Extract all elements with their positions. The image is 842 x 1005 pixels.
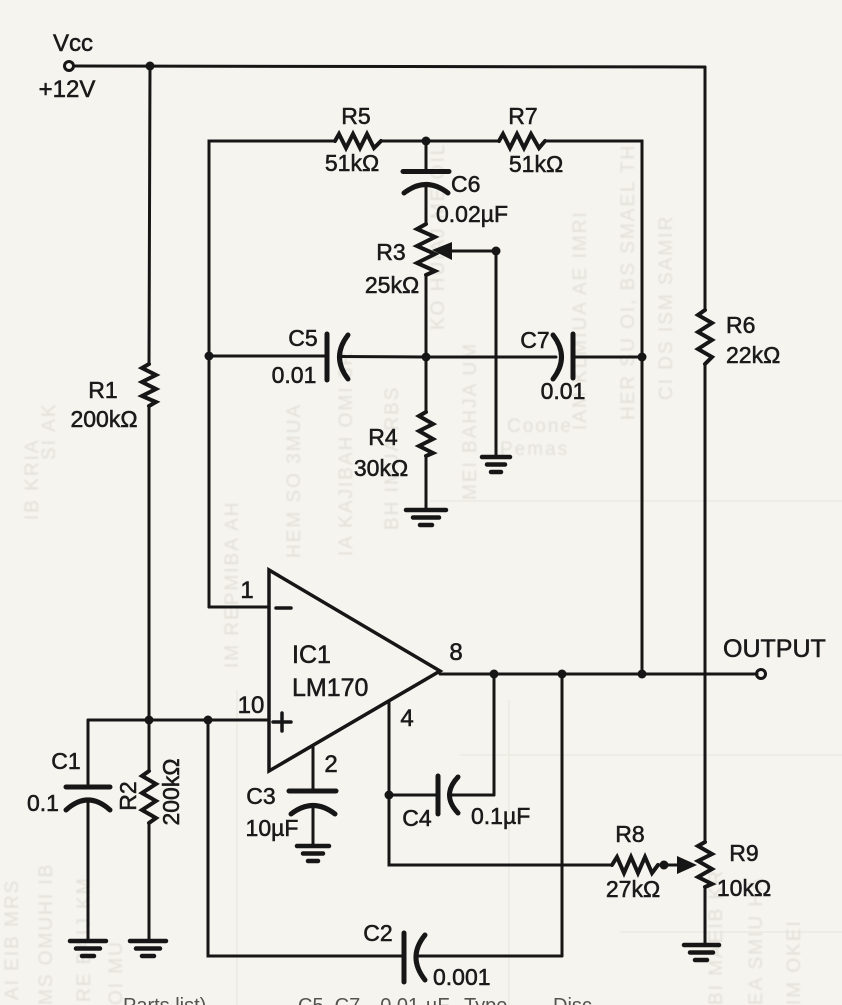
junction R8-wiper node <box>660 861 669 870</box>
svg-text:8: 8 <box>449 639 462 666</box>
ground under C3 <box>297 846 329 861</box>
junction C7 right node <box>638 353 647 362</box>
svg-text:R6: R6 <box>726 312 755 338</box>
svg-text:51kΩ: 51kΩ <box>509 151 563 177</box>
svg-text:Parts list): Parts list) <box>123 995 206 1005</box>
svg-text:C7: C7 <box>520 327 549 353</box>
resistor R1 <box>70 364 156 432</box>
junction pin10-left rail <box>145 716 154 725</box>
svg-text:0.1: 0.1 <box>27 790 59 816</box>
junction C5 left node <box>205 352 214 361</box>
svg-text:LM170: LM170 <box>292 674 368 702</box>
junction output-C2 branch <box>558 670 567 679</box>
junction output-C4 branch <box>490 670 499 679</box>
svg-text:C2: C2 <box>363 920 392 946</box>
wire R7 to right feedback rail <box>545 141 642 674</box>
svg-text:R3: R3 <box>376 239 405 265</box>
svg-text:0.01: 0.01 <box>272 362 317 388</box>
junction output-feedback rail <box>638 670 647 679</box>
svg-text:4: 4 <box>400 705 413 732</box>
svg-text:27kΩ: 27kΩ <box>606 876 660 902</box>
resistor R2 <box>115 720 184 939</box>
wiper arrow of R9 <box>658 856 697 874</box>
svg-text:30kΩ: 30kΩ <box>354 455 408 481</box>
svg-text:Coone: Coone <box>507 416 573 437</box>
svg-text:22kΩ: 22kΩ <box>726 342 780 368</box>
wire left rail to C5 <box>209 355 327 358</box>
svg-text:R9: R9 <box>729 840 758 866</box>
svg-text:R4: R4 <box>368 424 398 450</box>
svg-text:25kΩ: 25kΩ <box>365 272 419 298</box>
junction pin4-C4-R8 <box>385 791 394 800</box>
svg-text:Type: Type <box>464 995 507 1005</box>
op-amp IC1 <box>269 570 440 771</box>
resistor R5 <box>325 103 381 176</box>
node OUTPUT terminal <box>723 635 826 679</box>
ground under R3 wiper <box>482 457 510 472</box>
svg-text:Disc: Disc <box>553 995 592 1005</box>
wire inverting input pin 1 <box>209 606 269 609</box>
wire left rail upper (VCC to R1) <box>149 66 150 364</box>
resistor R8 <box>606 821 660 902</box>
svg-text:10: 10 <box>238 692 265 719</box>
junction C6 top node <box>422 137 431 146</box>
resistor R4 <box>354 357 433 508</box>
svg-text:R2: R2 <box>115 781 141 810</box>
capacitor C2 <box>363 920 562 990</box>
wire left rail lower (R1 to pin10 node) <box>148 406 151 720</box>
svg-text:R8: R8 <box>615 821 644 847</box>
junction R3 wiper node <box>492 247 501 256</box>
wire wiper to ground <box>495 251 498 455</box>
junction R3-R4-C5-C7 node <box>422 353 431 362</box>
capacitor C5 <box>272 325 426 388</box>
wire C2 right up to output <box>561 674 564 956</box>
svg-text:0.01: 0.01 <box>541 378 586 404</box>
svg-text:R7: R7 <box>508 103 537 129</box>
svg-text:10kΩ: 10kΩ <box>717 875 771 901</box>
wire R3 to C5/C7 node <box>425 275 428 357</box>
wiper arrow of R3 <box>432 242 496 260</box>
svg-text:51kΩ: 51kΩ <box>325 150 379 176</box>
wire VCC top rail <box>74 66 705 67</box>
svg-text:R5: R5 <box>341 103 370 129</box>
svg-text:MEI BAHJA UM: MEI BAHJA UM <box>460 342 481 500</box>
potentiometer R3 <box>365 224 435 298</box>
svg-text:CI DS ISM SAMIR: CI DS ISM SAMIR <box>656 215 677 400</box>
svg-text:200kΩ: 200kΩ <box>158 758 184 825</box>
svg-text:+12V: +12V <box>39 76 96 103</box>
wire C4 right up to output <box>493 674 496 795</box>
svg-text:0.1µF: 0.1µF <box>471 803 530 829</box>
ground under C1 <box>70 941 106 956</box>
ground under R2 <box>130 941 166 956</box>
capacitor C6 <box>403 141 508 227</box>
junction pin10-C2 branch <box>204 716 213 725</box>
svg-text:C6: C6 <box>451 171 480 197</box>
svg-text:IM OKEI: IM OKEI <box>784 919 805 1005</box>
svg-text:R1: R1 <box>88 377 117 403</box>
potentiometer R9 <box>698 840 771 945</box>
ground under R9 <box>684 945 719 960</box>
svg-text:0.02µF: 0.02µF <box>436 201 508 227</box>
svg-text:C3: C3 <box>246 783 275 809</box>
svg-text:10µF: 10µF <box>246 815 299 841</box>
wire node to C7 <box>426 356 556 359</box>
wire pin 4 down <box>388 701 391 795</box>
resistor R6 <box>698 310 780 368</box>
node VCC terminal <box>39 30 96 103</box>
resistor R7 <box>499 103 563 177</box>
wire pin 2 to C3 <box>312 746 315 791</box>
capacitor C1 <box>27 720 110 939</box>
wire output pin 8 <box>440 673 757 676</box>
svg-text:C5, C7—0.01-µF: C5, C7—0.01-µF <box>298 995 450 1005</box>
svg-text:SI AK: SI AK <box>39 402 60 460</box>
wire noninverting input (pin 10) <box>88 719 269 722</box>
svg-text:2: 2 <box>324 751 337 778</box>
svg-text:MS OMUHI IB: MS OMUHI IB <box>36 863 57 1005</box>
svg-text:1: 1 <box>240 577 253 604</box>
wire pin10 node down to C2 <box>208 720 404 956</box>
wire R5 to R7 <box>381 140 499 143</box>
capacitor C4 <box>389 776 530 831</box>
svg-text:OUTPUT: OUTPUT <box>723 635 826 663</box>
svg-text:C1: C1 <box>51 748 80 774</box>
capacitor C7 <box>520 327 642 404</box>
svg-text:C5: C5 <box>288 325 317 351</box>
junction VCC-R1 <box>146 62 155 71</box>
svg-text:IC1: IC1 <box>292 641 331 669</box>
svg-text:Vcc: Vcc <box>53 30 93 57</box>
svg-text:C4: C4 <box>402 805 432 831</box>
wire feedback loop top-left vertical <box>209 141 335 607</box>
svg-text:HER SU OI, BS SMAEL TH: HER SU OI, BS SMAEL TH <box>618 144 639 420</box>
capacitor C3 <box>246 783 336 846</box>
svg-text:200kΩ: 200kΩ <box>70 406 137 432</box>
svg-text:0.001: 0.001 <box>433 964 491 990</box>
wire R6 down to R9 <box>704 364 707 842</box>
wire pin4 node to R8 <box>389 795 612 865</box>
wire top rail to R6 <box>704 67 707 310</box>
ground under R4 <box>406 510 446 525</box>
svg-text:AI EIB MRS: AI EIB MRS <box>2 879 23 1000</box>
svg-text:HEM SO 3MUA: HEM SO 3MUA <box>284 403 305 558</box>
